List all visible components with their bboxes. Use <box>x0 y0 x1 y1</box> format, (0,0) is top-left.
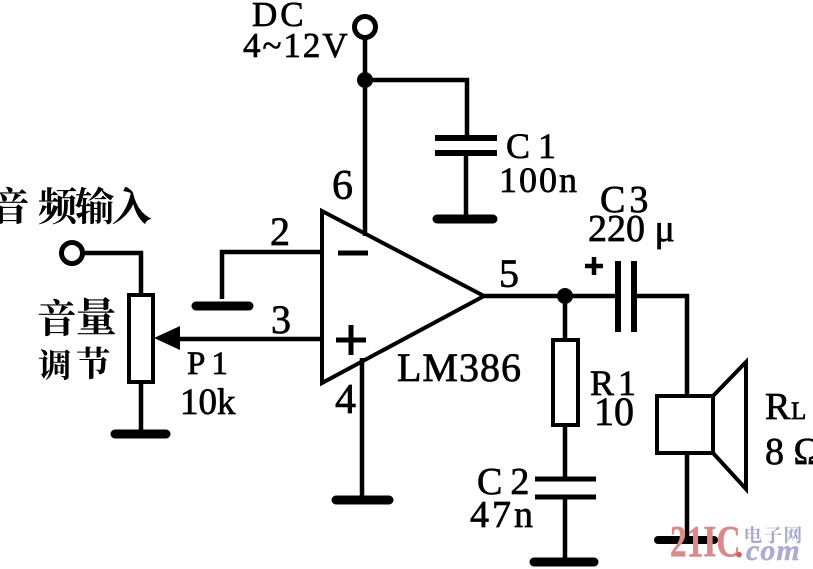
node output junction <box>557 288 573 304</box>
terminal DC supply <box>355 17 376 38</box>
svg-text:3: 3 <box>271 297 291 342</box>
label P1 10k <box>180 346 236 423</box>
wire C3 to speaker <box>637 296 687 397</box>
svg-text:10: 10 <box>594 389 634 434</box>
node supply junction <box>357 72 373 88</box>
ground C2 <box>534 558 594 567</box>
svg-text:4: 4 <box>335 377 356 423</box>
wire C1 to ground <box>464 155 469 216</box>
label volume adjust (Chinese) <box>39 297 116 380</box>
svg-text:5: 5 <box>499 251 519 296</box>
wire pin 2 to ground <box>222 252 322 299</box>
label C3 220u <box>588 179 675 250</box>
potentiometer P1 wiper arrow <box>154 326 180 350</box>
wire junction to R1 <box>563 296 568 341</box>
svg-text:com: com <box>746 534 801 567</box>
speaker RL <box>657 362 746 489</box>
label DC 4~12V <box>243 0 350 65</box>
wire C2 to ground <box>563 498 568 558</box>
watermark 21IC.com logo <box>670 518 801 567</box>
svg-text:21IC: 21IC <box>670 518 741 566</box>
capacitor C1 <box>435 138 497 153</box>
label RL 8ohm <box>765 386 813 473</box>
svg-text:8 Ω: 8 Ω <box>765 431 813 473</box>
svg-text:LM386: LM386 <box>397 345 522 390</box>
svg-text:100n: 100n <box>499 160 579 200</box>
polarity plus C3 <box>585 257 603 275</box>
svg-text:2: 2 <box>270 209 290 254</box>
potentiometer P1 body <box>129 295 153 382</box>
ground P1 <box>115 430 166 439</box>
svg-text:47n: 47n <box>470 494 536 536</box>
ground speaker <box>658 536 714 544</box>
wire pin 4 to ground <box>360 358 365 497</box>
terminal audio input <box>62 243 83 264</box>
label C2 47n <box>470 461 537 536</box>
capacitor C2 <box>535 479 596 497</box>
svg-text:10k: 10k <box>180 382 236 423</box>
capacitor C3 <box>618 261 634 332</box>
label R1 10 <box>590 363 640 434</box>
wire supply branch to C1 <box>365 80 467 137</box>
wire potentiometer to ground <box>139 382 144 432</box>
wire R1 to C2 <box>563 425 568 478</box>
wire pin 3 to potentiometer wiper <box>179 337 322 342</box>
op-amp U1 LM386 <box>322 211 484 383</box>
svg-text:L: L <box>791 398 806 425</box>
svg-text:.: . <box>735 528 743 564</box>
svg-text:R: R <box>765 386 791 428</box>
wire output pin 5 <box>484 294 615 299</box>
label C1 100n <box>499 126 579 200</box>
wire speaker to ground <box>685 453 690 537</box>
svg-text:4~12V: 4~12V <box>243 26 350 65</box>
label audio input (Chinese) <box>0 187 151 225</box>
ground pin 4 <box>336 496 389 505</box>
svg-text:220 μ: 220 μ <box>588 208 675 250</box>
svg-text:P1: P1 <box>187 346 234 382</box>
svg-text:6: 6 <box>332 163 353 209</box>
wire input to potentiometer top <box>84 253 141 295</box>
ground C1 <box>437 215 493 224</box>
ground pin 2 <box>196 302 249 311</box>
resistor R1 <box>553 340 578 425</box>
wire V+ from terminal to pin 6 <box>363 38 368 236</box>
